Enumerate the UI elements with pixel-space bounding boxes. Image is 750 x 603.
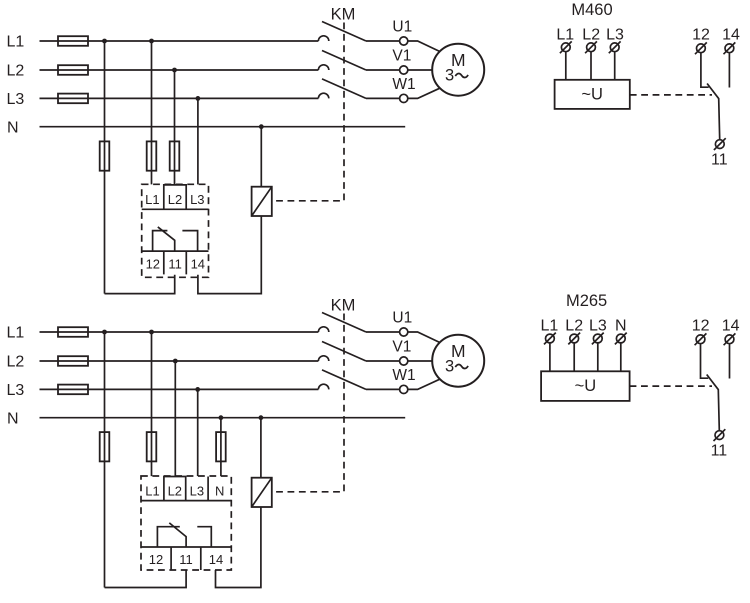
M265 terminal 11 xyxy=(715,431,724,440)
svg-text:11: 11 xyxy=(168,256,182,271)
svg-text:12: 12 xyxy=(692,27,710,44)
wire N riser to coil (bottom) xyxy=(260,418,262,478)
svg-text:W1: W1 xyxy=(392,367,415,384)
wire W1 to motor (bottom) xyxy=(408,379,440,389)
wire V1 to motor (top) xyxy=(408,69,433,71)
relay contact 12 riser (top) xyxy=(153,231,168,252)
svg-text:~U: ~U xyxy=(581,85,603,103)
M265 terminal L2 xyxy=(570,334,579,343)
fuse L2 (bottom) xyxy=(58,356,88,366)
wire M265 L3 to box xyxy=(597,343,599,371)
wire M460 L1 to box xyxy=(565,52,567,80)
M460 contact lever 11-12 xyxy=(707,84,720,140)
contactor KM pole 1 fixed contact (top) xyxy=(318,36,328,41)
relay M265 outline (dashed, bottom) xyxy=(141,476,231,570)
contactor KM pole 1 blade (top) xyxy=(322,22,366,42)
relay M460 outline (dashed, top) xyxy=(142,184,209,277)
contactor KM pole 2 fixed contact (bottom) xyxy=(318,356,328,361)
contactor coil KM (bottom) xyxy=(252,478,272,507)
M460 terminal L2 xyxy=(587,43,596,52)
fuse F5 on L1 tap B (bottom) xyxy=(147,432,157,461)
junction L2 tap (top) xyxy=(172,68,177,73)
M460 terminal L1 xyxy=(561,43,570,52)
svg-text:14: 14 xyxy=(722,27,740,44)
M265 contact 12 riser xyxy=(701,344,709,378)
wire L1 tap A riser (top) xyxy=(104,41,106,294)
wire KM to V1 (top) xyxy=(366,69,400,71)
M265 contact lever 11-12 xyxy=(707,375,720,431)
svg-text:V1: V1 xyxy=(392,339,411,356)
contactor KM mechanical link (dashed) (top) xyxy=(274,23,344,201)
svg-text:12: 12 xyxy=(692,318,710,335)
svg-text:14: 14 xyxy=(209,552,223,567)
junction N tap at fuse (bottom) xyxy=(219,415,224,420)
terminal W1 (bottom) xyxy=(400,385,408,393)
relay terminal L2 box (top) xyxy=(164,185,186,209)
wire U1 to motor (bottom) xyxy=(408,332,440,343)
svg-text:L2: L2 xyxy=(168,192,182,207)
M460 actuation link (dashed) xyxy=(630,94,712,96)
svg-text:N: N xyxy=(7,119,19,136)
relay contact base line (bottom) xyxy=(141,546,231,548)
M460 terminal 12 xyxy=(697,44,706,53)
junction L1 tap A (bottom) xyxy=(102,330,107,335)
junction L3 tap (top) xyxy=(196,96,201,101)
M265 terminal N xyxy=(616,334,625,343)
wire KM to V1 (bottom) xyxy=(366,360,400,362)
wire N rail (bottom) xyxy=(40,417,406,419)
relay contact 12 riser (bottom) xyxy=(157,527,179,547)
svg-text:L2: L2 xyxy=(7,63,25,80)
relay pin divider 12/11 (top) xyxy=(163,251,165,274)
wire KM to U1 (bottom) xyxy=(366,331,400,333)
wire U1 to motor (top) xyxy=(408,41,440,52)
fuse F3 on L2 riser (top) xyxy=(170,141,180,170)
wire L1 tap A riser (bottom) xyxy=(104,332,106,588)
svg-text:L3: L3 xyxy=(589,318,607,335)
terminal V1 (bottom) xyxy=(400,357,408,365)
wire N rail (top) xyxy=(40,126,406,128)
junction L3 tap (bottom) xyxy=(195,387,200,392)
motor M 3~ (bottom) xyxy=(432,335,484,387)
wire L1 rail (bottom) xyxy=(40,331,319,333)
wire L3 riser to relay L3 (bottom) xyxy=(197,389,199,476)
relay pin divider 11/14 (bottom) xyxy=(200,547,202,570)
svg-text:V1: V1 xyxy=(392,48,411,65)
svg-text:L1: L1 xyxy=(541,318,559,335)
svg-text:3: 3 xyxy=(445,66,454,84)
junction L1 tap A (top) xyxy=(102,39,107,44)
relay pin divider 11/14 (top) xyxy=(185,251,187,274)
contactor KM pole 2 fixed contact (top) xyxy=(318,65,328,70)
terminal V1 (top) xyxy=(400,66,408,74)
M460 terminal 14 xyxy=(725,44,734,53)
relay contact 14 seat (bottom) xyxy=(197,527,211,547)
svg-text:L2: L2 xyxy=(168,483,182,498)
svg-text:L3: L3 xyxy=(7,91,25,108)
svg-text:L3: L3 xyxy=(7,382,25,399)
fuse F6 on N riser (bottom) xyxy=(216,432,226,461)
wire L2 riser to relay L2 (top) xyxy=(174,70,176,184)
terminal W1 (top) xyxy=(400,94,408,102)
svg-text:L3: L3 xyxy=(190,192,204,207)
wire N riser to relay N (bottom) xyxy=(220,418,222,476)
wire L1 rail (top) xyxy=(40,40,319,42)
svg-text:L2: L2 xyxy=(7,354,25,371)
fuse L1 (top) xyxy=(58,36,88,46)
M265 terminal L1 xyxy=(546,334,555,343)
wire L3 rail (top) xyxy=(40,97,319,99)
wire M265 L1 to box xyxy=(549,343,551,371)
relay contact lever (top) xyxy=(158,227,175,251)
fuse L1 (bottom) xyxy=(58,327,88,337)
relay terminal L2 box (bottom) xyxy=(164,477,186,501)
wire L2 riser to relay L2 (bottom) xyxy=(174,361,176,476)
fuse F1 on L1 tap A (top) xyxy=(100,141,110,170)
svg-text:L1: L1 xyxy=(556,27,574,44)
svg-text:L3: L3 xyxy=(606,27,624,44)
svg-text:N: N xyxy=(615,318,627,335)
wire V1 to motor (bottom) xyxy=(408,360,433,362)
M265 actuation link (dashed) xyxy=(630,385,712,387)
wire L2 rail (top) xyxy=(40,69,319,71)
fuse L3 (bottom) xyxy=(58,385,88,395)
svg-text:KM: KM xyxy=(331,6,356,24)
wire L3 riser to relay L3 (top) xyxy=(197,98,199,184)
wire L1 tap B riser to relay L1 (top) xyxy=(151,41,153,184)
svg-text:W1: W1 xyxy=(392,76,415,93)
wire L3 rail (bottom) xyxy=(40,388,319,390)
fuse F2 on L1 tap B (top) xyxy=(147,141,157,170)
M460 measuring unit ~U box xyxy=(555,80,630,109)
contactor KM pole 2 blade (top) xyxy=(322,51,366,71)
contactor KM pole 1 blade (bottom) xyxy=(322,313,366,333)
fuse F4 on L1 tap A (bottom) xyxy=(100,432,110,461)
M265 contact 14 riser xyxy=(729,344,731,379)
contactor KM pole 3 blade (top) xyxy=(322,79,366,99)
relay contact lever (bottom) xyxy=(169,523,186,547)
svg-text:11: 11 xyxy=(711,442,728,459)
wire L1 tap B riser to relay L1 (bottom) xyxy=(151,332,153,476)
wire terminal 11 to fuse F1 (top) xyxy=(105,275,175,294)
wire coil to terminal 14 (top) xyxy=(198,216,261,294)
wire KM to W1 (bottom) xyxy=(366,388,400,390)
wire N riser to coil (top) xyxy=(260,127,262,187)
M460 contact 12 riser xyxy=(701,53,709,87)
relay pin divider L3/N (bottom) xyxy=(207,477,209,501)
svg-text:L1: L1 xyxy=(7,34,25,51)
relay terminal row base (bottom) xyxy=(141,500,231,502)
M460 terminal L3 xyxy=(610,43,619,52)
wire M460 L2 to box xyxy=(590,52,592,80)
M460 terminal 11 xyxy=(715,140,724,149)
M265 measuring unit ~U box xyxy=(541,371,630,401)
svg-text:12: 12 xyxy=(146,256,160,271)
wire M265 N to box xyxy=(620,343,622,371)
relay terminal row base (top) xyxy=(142,208,209,210)
svg-text:L1: L1 xyxy=(145,483,159,498)
wire coil to terminal 14 (bottom) xyxy=(216,507,261,588)
relay contact base line (top) xyxy=(142,250,209,252)
svg-text:L3: L3 xyxy=(190,483,204,498)
relay contact 14 seat (top) xyxy=(182,231,197,252)
svg-text:14: 14 xyxy=(191,256,205,271)
M265 terminal 14 xyxy=(725,335,734,344)
svg-text:KM: KM xyxy=(331,297,356,315)
svg-text:14: 14 xyxy=(722,318,740,335)
fuse L3 (top) xyxy=(58,94,88,104)
svg-text:11: 11 xyxy=(179,552,193,567)
svg-text:N: N xyxy=(7,410,19,427)
svg-text:L1: L1 xyxy=(7,325,25,342)
svg-text:M460: M460 xyxy=(571,1,612,19)
wire terminal 11 to fuse F4 (bottom) xyxy=(105,570,187,588)
wire KM to W1 (top) xyxy=(366,97,400,99)
wire W1 to motor (top) xyxy=(408,88,440,98)
junction L2 tap (bottom) xyxy=(173,359,178,364)
M265 terminal 12 xyxy=(696,335,705,344)
motor M 3~ (top) xyxy=(432,44,484,96)
contactor KM mechanical link (dashed) (bottom) xyxy=(274,314,344,492)
svg-text:L2: L2 xyxy=(565,318,583,335)
contactor KM pole 3 fixed contact (bottom) xyxy=(318,384,328,389)
contactor KM pole 1 fixed contact (bottom) xyxy=(318,327,328,332)
svg-text:11: 11 xyxy=(711,151,728,168)
terminal U1 (top) xyxy=(400,37,408,45)
wire M460 L3 to box xyxy=(614,52,616,80)
contactor KM pole 3 fixed contact (top) xyxy=(318,93,328,98)
svg-text:U1: U1 xyxy=(392,310,412,327)
svg-text:12: 12 xyxy=(149,552,163,567)
junction L1 tap B (top) xyxy=(149,39,154,44)
fuse L2 (top) xyxy=(58,65,88,75)
svg-text:U1: U1 xyxy=(392,19,412,36)
svg-text:3: 3 xyxy=(445,357,454,375)
contactor KM pole 3 blade (bottom) xyxy=(322,370,366,390)
terminal U1 (bottom) xyxy=(400,328,408,336)
M460 contact 14 riser xyxy=(728,53,730,88)
relay pin divider 12/11 (bottom) xyxy=(170,547,172,570)
junction L1 tap B (bottom) xyxy=(149,330,154,335)
wire L2 rail (bottom) xyxy=(40,360,319,362)
svg-text:L1: L1 xyxy=(145,192,159,207)
wire KM to U1 (top) xyxy=(366,40,400,42)
contactor coil KM (top) xyxy=(252,187,272,216)
M265 terminal L3 xyxy=(593,334,602,343)
junction N tap at coil (bottom) xyxy=(259,415,264,420)
svg-text:M265: M265 xyxy=(566,292,607,310)
svg-text:~U: ~U xyxy=(575,377,597,395)
junction N tap (top) xyxy=(259,124,264,129)
svg-text:N: N xyxy=(215,483,224,498)
wire M265 L2 to box xyxy=(573,343,575,371)
contactor KM pole 2 blade (bottom) xyxy=(322,342,366,362)
svg-text:L2: L2 xyxy=(582,27,600,44)
